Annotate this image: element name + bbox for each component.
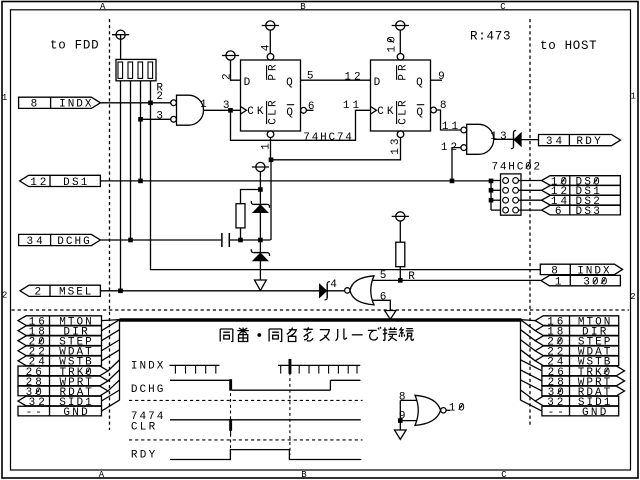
- wire fan SID1 right: [521, 390, 536, 401]
- wire FF1 Q to FF2 D (pin5 to pin12): [301, 79, 371, 81]
- svg-text:R: R: [408, 271, 415, 283]
- svg-text:GND: GND: [582, 407, 607, 419]
- connector J1 STEP left group: [18, 336, 102, 349]
- wire VCC to resistor R3: [399, 221, 401, 242]
- svg-text:1: 1: [555, 277, 562, 289]
- wire gate U1c output to diode: [493, 138, 513, 140]
- junction U1d inputs: [398, 418, 403, 423]
- timing DCHG waveform: [170, 380, 361, 390]
- wire FF2 CLR down to CLR net: [271, 138, 401, 160]
- wire INDX to gate input 2: [100, 102, 170, 104]
- svg-text:3: 3: [223, 100, 230, 112]
- timing DCHG falling edge (thick): [229, 379, 232, 391]
- junction DCHG / RA1 wire: [128, 238, 133, 243]
- schottky diode D1 (clamp to VCC): [251, 201, 269, 212]
- svg-text:CLR: CLR: [398, 100, 410, 125]
- wire R2 to DCHG: [240, 228, 242, 240]
- wire clamp node to resistor R2: [241, 190, 261, 204]
- timing 7474 CLR waveform: [170, 419, 361, 421]
- junction CLR net: [269, 158, 274, 163]
- svg-text:to HOST: to HOST: [540, 39, 597, 53]
- wire CLR net down to DCHG node: [270, 160, 272, 240]
- junction CK net: [228, 108, 233, 113]
- connector J2 pin14 DS2: [542, 195, 621, 208]
- connector J2 SID1 right group: [535, 396, 619, 409]
- wire clamp node to diode D1: [259, 190, 261, 204]
- svg-text:2: 2: [630, 292, 635, 302]
- power symbol VCC (R 473): [392, 212, 409, 221]
- wire U1d output stub: [446, 409, 450, 411]
- svg-text:RDY: RDY: [576, 136, 601, 148]
- svg-text:CLR: CLR: [131, 422, 156, 434]
- wire gate U1c input 12 to DS1 net: [452, 148, 461, 181]
- wire fan TRK0 left: [108, 360, 120, 371]
- NOR gate U1d (74HC02) unused-input inverter: [415, 395, 446, 425]
- wire row4 to DS3 connector: [519, 209, 542, 211]
- wire fan MTON left: [102, 320, 120, 321]
- wire jumper bus vertical: [490, 181, 492, 210]
- wire FF2 Q stub (pin9): [431, 79, 443, 81]
- wire U1d input to ground: [399, 421, 401, 430]
- wire fan WSTB right: [521, 350, 536, 361]
- timing CLR pulse (thick): [229, 419, 232, 431]
- svg-text:INDX: INDX: [59, 99, 92, 111]
- svg-text:2: 2: [35, 287, 42, 299]
- svg-text:B: B: [300, 2, 306, 12]
- wire capacitor to DCHG node: [229, 239, 270, 241]
- connector J2 pin1 300 (speed select): [541, 275, 620, 288]
- wire CK net to FF2 CK (routing): [231, 110, 371, 140]
- svg-text:CLR: CLR: [268, 100, 280, 125]
- connector J1 pin2 MSEL: [20, 285, 100, 299]
- schottky diode D3 (RDY): [511, 130, 521, 148]
- wire fan DIR left: [102, 320, 120, 331]
- power symbol VCC (resistor array): [112, 30, 129, 39]
- wire MSEL line: [100, 290, 319, 292]
- connector J1 pin12 DS1: [20, 175, 101, 189]
- wire bus stub row4: [491, 209, 501, 211]
- junction DCHG / resistor R2: [238, 238, 243, 243]
- power symbol VCC (clamp): [252, 162, 269, 171]
- resistor R3 (473 pull-up): [396, 242, 405, 267]
- wire bus stub row2: [491, 189, 501, 191]
- wire RA1 to DCHG line: [130, 81, 132, 240]
- dashed boundary line right (HOST side): [529, 19, 531, 426]
- junction MSEL / RA1: [118, 289, 123, 294]
- svg-text:DCHG: DCHG: [57, 236, 89, 248]
- power symbol VCC (FF2 pin10 PR): [392, 21, 409, 30]
- connector J2 WSTB right group: [535, 356, 619, 369]
- NOR gate U1b (74HC02) mirrored facing left: [345, 276, 374, 305]
- wire VCC to FF1 D: [231, 60, 241, 80]
- left group comb spine: [119, 320, 121, 401]
- svg-text:3: 3: [156, 110, 163, 122]
- ground symbol (clamp): [255, 280, 267, 291]
- connector J2 pin34 RDY (to HOST): [539, 135, 621, 149]
- connector J1 MTON left group: [18, 316, 102, 329]
- connector J2 STEP right group: [535, 336, 619, 349]
- svg-text:D: D: [244, 77, 251, 89]
- wire fan WDAT right: [521, 340, 536, 351]
- wire RA1 to DS1 line: [140, 81, 142, 181]
- connector J2 pin6 DS3: [542, 205, 621, 218]
- wire fan GND left: [102, 400, 120, 411]
- svg-text:C: C: [501, 470, 507, 480]
- svg-text:R:473: R:473: [470, 29, 511, 43]
- timing dashed vertical t1: [230, 382, 232, 457]
- svg-text:1: 1: [631, 92, 636, 102]
- wire bus stub row3: [491, 199, 501, 201]
- wire fan RDAT left: [108, 380, 120, 391]
- timing INDX waveform segment B: [278, 365, 360, 373]
- connector J1 DIR left group: [18, 326, 102, 339]
- svg-text:5: 5: [307, 70, 314, 82]
- svg-text:Q: Q: [416, 77, 423, 89]
- wire fan RDAT right: [521, 380, 542, 391]
- connector J1 TRK0 left group: [18, 366, 108, 379]
- wire fan WPRT left: [108, 370, 120, 381]
- svg-text:RDY: RDY: [131, 450, 156, 462]
- FF1 Qbar bubble (pin6): [301, 107, 307, 113]
- bus entry arrow (U1b pin6): [385, 311, 396, 320]
- svg-text:6: 6: [555, 206, 562, 218]
- connector J2 pin10 DS0: [542, 176, 621, 189]
- caption: same-number/same-name passthrough connection (Japanese): [220, 327, 413, 342]
- svg-text:2: 2: [156, 91, 163, 103]
- junction bus DS2 row: [489, 198, 494, 203]
- dashed horizontal separator: [12, 309, 630, 311]
- junction INDX / RA1: [148, 101, 153, 106]
- svg-text:C: C: [500, 2, 506, 12]
- svg-text:8: 8: [31, 99, 38, 111]
- wire U1b input6 to bus arrow: [372, 300, 391, 310]
- wire fan STEP left: [102, 330, 120, 341]
- wire R3 to R net: [399, 267, 401, 281]
- wire fan WDAT left: [102, 340, 120, 351]
- svg-text:1: 1: [200, 99, 207, 111]
- wire fan DIR right: [521, 320, 536, 331]
- connector J2 DIR right group: [535, 326, 619, 339]
- wire DCHG to diode D2: [259, 240, 261, 252]
- svg-text:A: A: [99, 470, 105, 480]
- wire FF1 CLR down: [270, 138, 272, 160]
- wire FF1 pin6 stub: [306, 109, 313, 111]
- dashed boundary line left (FDD side): [109, 19, 111, 430]
- timing CLR pulse tail: [230, 431, 232, 436]
- svg-text:DS3: DS3: [576, 206, 600, 218]
- timing dashed horizontal separator 1: [129, 399, 363, 401]
- connector J2 WPRT right group: [542, 376, 625, 389]
- svg-text:Q: Q: [286, 77, 293, 89]
- svg-text:Q: Q: [416, 107, 423, 119]
- power symbol VCC (FF1 pin4 PR): [262, 21, 279, 30]
- svg-text:DS1: DS1: [63, 177, 88, 189]
- resistor array RA1 (pull-ups): [116, 59, 156, 80]
- connector J2 GND right group: [542, 406, 619, 419]
- svg-text:2: 2: [222, 73, 234, 80]
- wire VCC down to clamp node: [259, 172, 261, 190]
- wire row1 to DS0 connector: [519, 180, 542, 182]
- junction R net: [398, 278, 403, 283]
- ground symbol (U1d): [395, 430, 407, 439]
- wire DS1 line: [100, 180, 491, 182]
- connector J2 pin12 DS1: [542, 186, 621, 199]
- svg-text:1: 1: [2, 93, 7, 103]
- wire DCHG to capacitor: [100, 239, 221, 241]
- svg-text:Q: Q: [286, 107, 293, 119]
- connector J1 WPRT left group: [18, 376, 108, 389]
- connector J2 WDAT right group: [535, 346, 619, 359]
- wire fan STEP right: [521, 330, 536, 341]
- svg-text:INDX: INDX: [131, 361, 164, 373]
- connector J2 TRK0 right group: [542, 366, 625, 379]
- connector J2 pin8 INDX (to HOST): [540, 264, 622, 277]
- wire row2 to DS1 connector: [519, 189, 542, 191]
- junction bus DS1 row: [489, 188, 494, 193]
- wire VCC to resistor array: [120, 35, 122, 60]
- junction input3 / RA1: [138, 117, 143, 122]
- NOR gate U1c (74HC02) pins 11,12,13: [461, 124, 494, 154]
- wire fan WPRT right: [521, 370, 542, 381]
- NOR gate U1a (74HC02) as AND w/ inverted inputs: [171, 95, 204, 125]
- wire fan WSTB left: [102, 350, 120, 361]
- wire U1d inputs tied: [400, 399, 417, 401]
- wire diode D4 to gate output bubble: [327, 290, 345, 292]
- FF2 Qbar bubble (pin8): [431, 107, 437, 113]
- svg-text:GND: GND: [63, 407, 88, 419]
- wire fan SID1 left: [102, 390, 120, 401]
- connector J1 RDAT left group: [18, 386, 108, 399]
- connector J1 GND left group: [18, 406, 102, 419]
- svg-text:300: 300: [583, 277, 607, 289]
- svg-text:6: 6: [308, 101, 315, 113]
- right group comb spine: [520, 320, 522, 401]
- svg-text:6: 6: [380, 291, 387, 303]
- svg-text:4: 4: [330, 279, 337, 291]
- connector J1 WSTB left group: [18, 356, 102, 369]
- flip-flop U2a 74HC74 first half: [241, 54, 301, 138]
- wire row3 to DS2 connector: [519, 199, 542, 201]
- wire fan MTON right: [521, 320, 536, 321]
- capacitor C1 (series in DCHG): [222, 233, 229, 247]
- timing RDY waveform: [170, 450, 361, 460]
- connector J2 RDAT right group: [542, 386, 625, 399]
- connector J1 pin34 DCHG: [19, 234, 101, 248]
- power symbol VCC (FF1 pin2 D): [222, 51, 239, 60]
- wire fan TRK0 right: [521, 360, 542, 371]
- flip-flop U2b 74HC74 second half: [371, 54, 431, 138]
- junction DCHG / clamp column: [258, 238, 263, 243]
- schottky diode D4 (MSEL): [320, 282, 330, 300]
- wire fan GND right: [521, 400, 542, 411]
- svg-text:2: 2: [2, 291, 7, 301]
- svg-text:1: 1: [260, 143, 272, 150]
- junction DS1 / jumper bus: [489, 179, 494, 184]
- svg-text:8: 8: [440, 100, 447, 112]
- resistor R2 (DCHG pull-up): [236, 204, 245, 228]
- wire gate1 output to FF1 CK: [203, 109, 240, 111]
- wire FF2 Qbar to gate input 11: [436, 110, 461, 130]
- wire VCC to FF1 PR: [269, 30, 271, 53]
- thick through-bus line: [120, 318, 522, 322]
- wire D1 to DCHG: [259, 212, 261, 240]
- wire INDX to HOST line: [151, 103, 541, 270]
- svg-text:A: A: [100, 2, 106, 12]
- wire VCC to FF2 PR: [399, 30, 401, 53]
- svg-text:9: 9: [438, 71, 445, 83]
- junction DS1 / U1c pin12: [450, 179, 455, 184]
- connector J1 WDAT left group: [18, 346, 102, 359]
- wire U1b input5 / R net to 300 connector: [372, 279, 541, 281]
- connector J2 MTON right group: [535, 316, 619, 329]
- timing INDX thick index pulse: [289, 359, 292, 374]
- svg-text:to FDD: to FDD: [50, 39, 99, 53]
- jumper block JP1 (74HC02 socket): [501, 174, 522, 215]
- wire RA1 to MSEL line: [120, 81, 122, 291]
- junction clamp VCC node: [258, 187, 263, 192]
- wire gate input 3: [141, 118, 171, 120]
- junction DS1 / RA1: [138, 179, 143, 184]
- wire bus stub row1: [491, 180, 501, 182]
- timing dashed horizontal separator 2: [129, 439, 363, 441]
- svg-text:D: D: [374, 77, 381, 89]
- schottky diode D2 (clamp to GND): [251, 249, 269, 260]
- connector J1 SID1 left group: [18, 396, 102, 409]
- svg-text:B: B: [301, 470, 307, 480]
- wire RA1 to INDX line: [150, 81, 152, 103]
- connector J1 pin8 INDX (from FDD): [19, 97, 101, 111]
- wire diode D3 to RDY connector: [521, 139, 539, 141]
- timing dashed vertical t2: [289, 367, 291, 456]
- wire D2 to ground: [259, 261, 261, 280]
- svg-text:4: 4: [260, 44, 272, 51]
- timing INDX waveform segment A: [170, 365, 220, 373]
